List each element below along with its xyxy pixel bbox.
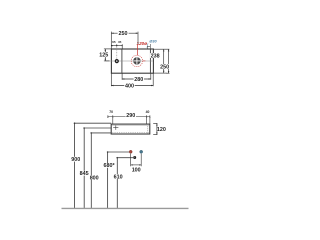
dimension 120 (front view height) <box>153 123 157 134</box>
label 680* <box>103 163 116 168</box>
svg-text:120: 120 <box>157 127 166 133</box>
svg-text:845: 845 <box>80 171 89 177</box>
pointer 845 <box>84 128 111 208</box>
dimension 65/45 (small, above tap) <box>111 44 122 49</box>
tap hole <box>115 60 118 63</box>
basin front rectangle <box>111 124 150 134</box>
dashed overflow line inside right <box>147 126 149 134</box>
dotted waterline inside basin <box>112 132 150 134</box>
svg-text:250: 250 <box>160 64 169 70</box>
label 238 <box>150 53 160 58</box>
label 800 <box>89 175 100 180</box>
svg-text:70: 70 <box>109 110 113 114</box>
svg-text:280: 280 <box>134 77 143 83</box>
dimension 100 (between supplies) <box>131 154 142 167</box>
svg-text:125: 125 <box>99 52 108 58</box>
dimension 280 (bottom inner) <box>122 73 151 79</box>
svg-text:45: 45 <box>118 40 122 44</box>
svg-text:800: 800 <box>90 175 99 181</box>
svg-text:65: 65 <box>112 40 116 44</box>
dimension 238 (right inner) <box>154 49 170 73</box>
dimension 70/290/40 (top of front view) <box>108 115 150 124</box>
inner top shading line <box>112 125 149 127</box>
svg-text:900: 900 <box>71 157 80 163</box>
label 610 <box>113 174 124 179</box>
label 250 top <box>118 31 129 36</box>
outer basin rectangle <box>111 49 153 73</box>
horizontal centerline <box>105 60 152 62</box>
svg-text:250: 250 <box>119 31 128 37</box>
svg-text:400: 400 <box>125 84 134 90</box>
dimension 250 (right outer) <box>166 49 170 73</box>
blue leader line <box>147 43 148 47</box>
svg-text:610: 610 <box>114 174 123 180</box>
red center tick right of drain <box>143 60 146 62</box>
waste outlet (black dot) <box>133 156 136 159</box>
inner bowl rectangle <box>121 49 123 73</box>
tap cross mark <box>113 125 118 130</box>
drain (dark circle with white grate cross) <box>133 57 140 64</box>
label 845 <box>79 171 90 176</box>
label 250 right <box>159 64 169 69</box>
svg-text:Ø30: Ø30 <box>149 40 157 44</box>
floor line <box>62 207 189 209</box>
label 280 <box>134 77 144 82</box>
tap hole dashed centerline <box>116 46 118 59</box>
svg-text:680*: 680* <box>104 163 116 169</box>
30 mini-dimension at top edge <box>147 44 150 49</box>
label 125 <box>99 52 109 57</box>
pointer 680 (to hot/cold supply) <box>108 152 130 208</box>
svg-text:290: 290 <box>126 113 135 119</box>
hot water supply (red dot) <box>129 150 132 153</box>
pointer 900 (to rim top) <box>75 123 112 208</box>
cold water supply (blue dot) <box>140 150 143 153</box>
label 400 <box>124 83 134 88</box>
red leader line from 120ø label to drain <box>137 44 139 55</box>
dimension 400 (bottom outer) <box>111 73 153 86</box>
dimension 125 (left) <box>104 49 112 61</box>
pointer 800 <box>91 133 111 208</box>
label 290 <box>126 113 136 118</box>
svg-text:238: 238 <box>151 54 160 60</box>
dimension 250 (top) <box>111 32 138 49</box>
pointer 610 (to waste outlet) <box>117 158 133 209</box>
label 900 <box>70 157 81 162</box>
svg-text:100: 100 <box>132 168 141 174</box>
svg-text:40: 40 <box>146 110 150 114</box>
drain red dashed circle (120ø) <box>131 55 142 66</box>
